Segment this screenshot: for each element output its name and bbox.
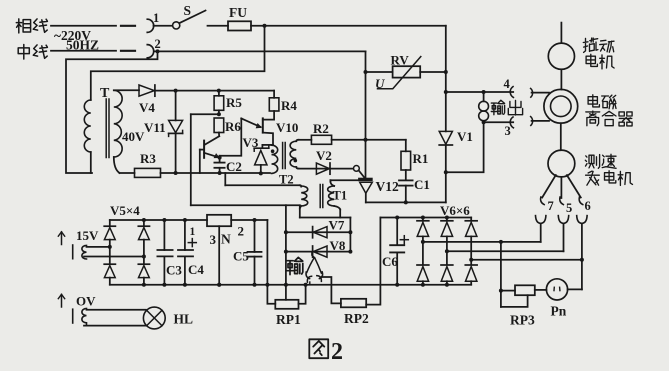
svg-text:R5: R5 <box>226 95 242 110</box>
svg-text:V11: V11 <box>144 120 166 135</box>
svg-text:V1: V1 <box>457 129 473 144</box>
svg-text:Pn: Pn <box>551 304 567 319</box>
svg-text:V7: V7 <box>329 218 345 233</box>
svg-text:V12: V12 <box>376 179 399 194</box>
svg-text:3: 3 <box>505 124 511 138</box>
svg-text:R1: R1 <box>413 151 429 166</box>
svg-text:RP3: RP3 <box>510 313 535 328</box>
svg-text:V8: V8 <box>330 238 346 253</box>
svg-text:S: S <box>184 3 192 18</box>
svg-text:R2: R2 <box>313 121 329 136</box>
svg-text:U: U <box>375 76 385 91</box>
svg-text:C6: C6 <box>382 254 398 269</box>
svg-text:6: 6 <box>585 199 591 213</box>
svg-text:V5×4: V5×4 <box>110 203 140 218</box>
svg-text:3: 3 <box>210 232 217 247</box>
svg-text:V6×6: V6×6 <box>440 203 470 218</box>
svg-text:OV: OV <box>76 294 96 309</box>
svg-text:RP2: RP2 <box>344 311 369 326</box>
svg-text:2: 2 <box>238 224 245 239</box>
svg-text:V4: V4 <box>139 100 155 115</box>
svg-text:4: 4 <box>504 77 511 91</box>
svg-text:7: 7 <box>548 199 554 213</box>
svg-text:T: T <box>100 86 110 101</box>
svg-text:T2: T2 <box>279 173 294 187</box>
svg-text:C2: C2 <box>226 159 242 174</box>
svg-text:RP1: RP1 <box>276 312 301 327</box>
svg-text:N: N <box>221 232 231 247</box>
svg-text:R4: R4 <box>281 98 297 113</box>
svg-text:T1: T1 <box>333 189 348 203</box>
svg-text:C1: C1 <box>414 177 430 192</box>
svg-text:2: 2 <box>155 37 161 51</box>
svg-text:1: 1 <box>190 226 196 238</box>
svg-text:C3: C3 <box>166 263 182 278</box>
svg-text:V10: V10 <box>276 120 298 135</box>
svg-text:R6: R6 <box>225 119 241 134</box>
svg-text:FU: FU <box>229 5 247 20</box>
svg-text:C5: C5 <box>233 249 249 264</box>
svg-text:1: 1 <box>153 11 159 25</box>
svg-text:5: 5 <box>566 201 572 215</box>
svg-text:C4: C4 <box>188 262 204 277</box>
svg-text:2: 2 <box>331 339 343 365</box>
svg-text:RV: RV <box>391 53 410 68</box>
svg-text:V2: V2 <box>316 148 332 163</box>
svg-text:V3: V3 <box>243 135 259 150</box>
svg-text:R3: R3 <box>140 151 156 166</box>
svg-text:40V: 40V <box>122 129 145 144</box>
svg-text:HL: HL <box>174 312 194 327</box>
svg-text:15V: 15V <box>76 228 99 243</box>
